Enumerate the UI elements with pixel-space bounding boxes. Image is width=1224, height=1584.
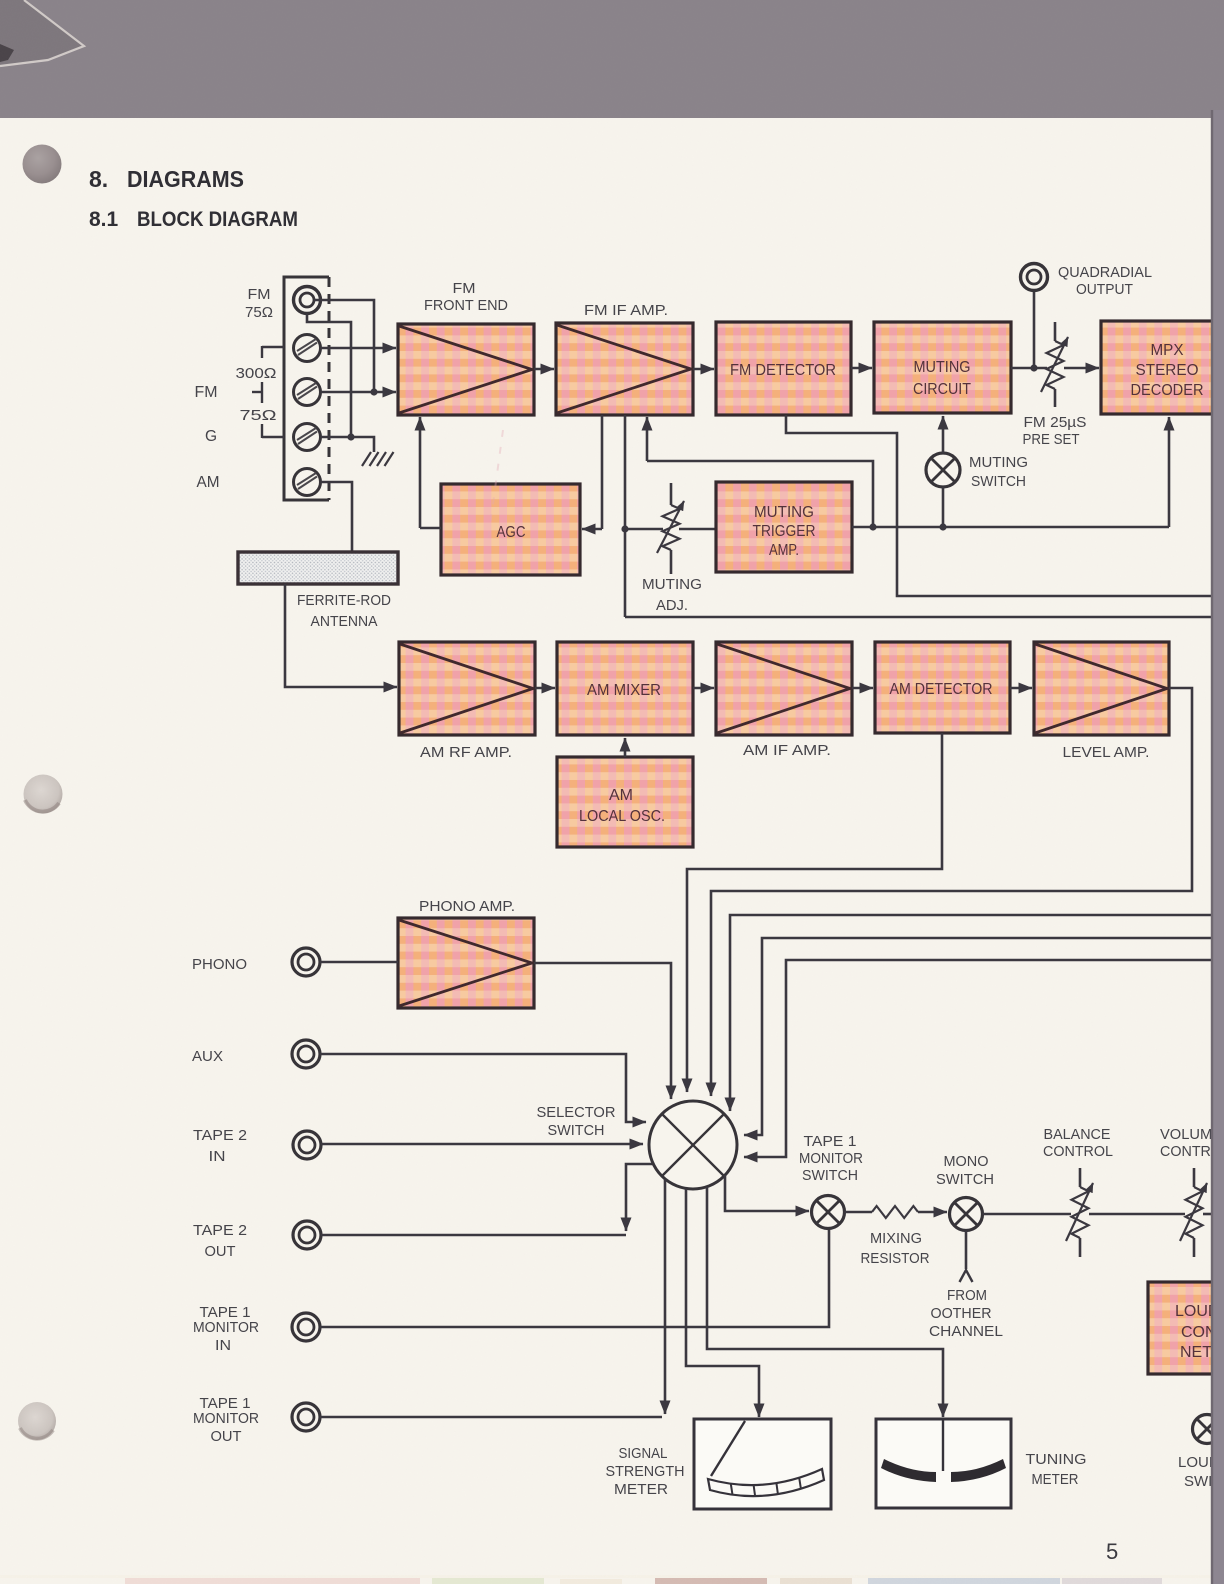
block FM DETECTOR [716,322,851,415]
label FERRITE-ROD ANTENNA [297,592,391,630]
terminal FM 75ohm coax [294,287,321,314]
faint pencil scratch [487,430,503,548]
jack TAPE 1 MONITOR IN [292,1313,320,1341]
jack AUX [292,1040,320,1068]
block LOUDNESS CONTROL NETWORK [1148,1282,1224,1374]
heading 8. DIAGRAMS [89,166,244,192]
svg-text:CONTROL: CONTROL [1043,1143,1113,1160]
block MUTING CIRCUIT [874,322,1011,413]
wire mono switch from other channel [965,1231,968,1270]
label MIXING RESISTOR [861,1230,930,1267]
node muting switch junction [939,523,946,530]
svg-text:MONO: MONO [944,1153,989,1170]
svg-text:CHANNEL: CHANNEL [929,1323,1003,1340]
terminal QUADRADIAL OUTPUT [1021,264,1048,291]
svg-text:METER: METER [1032,1471,1079,1488]
svg-text:G: G [205,428,217,445]
switch MONO [950,1198,983,1231]
label LEVEL AMP. [1063,744,1150,761]
svg-text:TUNING: TUNING [1026,1451,1087,1468]
wire muting switch down to bus [942,487,945,527]
svg-text:FM: FM [248,286,271,303]
svg-text:SELECTOR: SELECTOR [537,1104,616,1121]
svg-text:FM 25µS: FM 25µS [1024,414,1087,431]
svg-text:QUADRADIAL: QUADRADIAL [1058,264,1152,281]
svg-text:CIRCUIT: CIRCUIT [913,381,971,398]
wire AM IF amp to AM detector [852,687,873,690]
svg-text:AM RF AMP.: AM RF AMP. [420,744,512,761]
punch hole 2 [24,775,63,814]
wire bus line 938 from right into selector [744,938,1216,1135]
jack PHONO [292,948,320,976]
label MUTING ADJ. [642,576,702,614]
block LEVEL AMP [1034,642,1169,735]
svg-text:5: 5 [1106,1539,1118,1564]
scanner gray band top [0,0,1224,118]
potentiometer VOLUME CONTROL [1180,1168,1207,1257]
node feedback junction [869,523,876,530]
wire aux jack to selector [320,1054,646,1122]
svg-text:MUTING: MUTING [754,504,814,521]
label MUTING SWITCH [969,454,1028,490]
svg-text:BALANCE: BALANCE [1044,1126,1111,1143]
meter SIGNAL STRENGTH [694,1419,831,1509]
wire FM IF amp bottom into AGC [601,415,604,529]
svg-text:SWITCH: SWITCH [548,1122,605,1139]
wire FM IF amp muting takeoff down [624,415,627,617]
label 300ohm [236,365,277,382]
punch hole 1 [23,145,62,184]
wire AGC output up into FM front end [420,527,441,530]
block MPX STEREO DECODER [1101,321,1217,414]
ferrite-rod antenna [238,552,398,584]
node quadradial tap [1030,364,1037,371]
svg-text:ADJ.: ADJ. [656,597,688,614]
svg-text:AUX: AUX [192,1048,223,1065]
svg-text:PHONO AMP.: PHONO AMP. [419,898,515,915]
svg-text:PRE SET: PRE SET [1023,431,1080,448]
svg-text:OUT: OUT [211,1428,242,1445]
wire selector to tuning meter [707,1187,943,1417]
svg-text:75Ω: 75Ω [240,407,277,424]
svg-text:FERRITE-ROD: FERRITE-ROD [297,592,391,609]
label AM RF AMP. [420,744,512,761]
switch LOUDNESS [1193,1415,1222,1444]
svg-text:TAPE 2: TAPE 2 [193,1127,247,1144]
label PHONO AMP. [419,898,515,915]
wire AM mixer to AM IF amp [693,687,714,690]
svg-text:FRONT END: FRONT END [424,297,508,314]
wire tape 2 in to selector [321,1143,643,1146]
block AM LOCAL OSC [557,757,693,847]
svg-text:SWITCH: SWITCH [802,1167,858,1184]
svg-text:METER: METER [614,1481,668,1498]
wire selector to signal strength meter [686,1189,759,1417]
wire phono amp output to selector [534,963,671,1099]
block PHONO AMP [398,918,534,1008]
svg-text:AMP.: AMP. [769,542,799,559]
block FM FRONT END [398,324,534,415]
svg-text:MUTING: MUTING [914,359,971,376]
svg-text:LOCAL OSC.: LOCAL OSC. [579,808,665,825]
label SIGNAL STRENGTH METER [606,1445,685,1498]
wire AM terminal down to ferrite antenna [321,482,353,552]
svg-text:FM: FM [195,384,218,401]
label FM 25uS PRE SET [1023,414,1087,448]
label TAPE 1 MONITOR OUT [193,1395,259,1445]
jack TAPE 2 OUT [293,1221,321,1249]
svg-text:300Ω: 300Ω [236,365,277,382]
svg-text:SWITCH: SWITCH [936,1171,994,1188]
wire AM detector output down to selector [687,733,942,1092]
wire muting adj pot to muting trigger amp [679,528,716,531]
node FM front end input junction [370,388,377,395]
svg-text:AGC: AGC [497,524,526,541]
potentiometer BALANCE CONTROL [1066,1168,1093,1257]
jack TAPE 1 MONITOR OUT [292,1403,320,1431]
svg-text:FROM: FROM [947,1287,987,1304]
ground [362,452,394,466]
wire quadradial output [1033,291,1036,368]
svg-text:TAPE 1: TAPE 1 [804,1133,857,1150]
heading 8.1 BLOCK DIAGRAM [89,208,298,231]
label MONO SWITCH [936,1153,994,1188]
svg-text:MPX: MPX [1151,342,1184,359]
jack TAPE 2 IN [293,1131,321,1159]
resistor MIXING [845,1206,948,1218]
label FROM OOTHER CHANNEL [929,1287,1003,1340]
wire long muting line to right edge [625,616,1216,619]
wire FM front end to FM IF amp [534,368,554,371]
label QUADRADIAL OUTPUT [1058,264,1152,298]
wire 300ohm terminal to FM front end [321,347,397,350]
bottom page-edge colored strip [0,1575,1212,1584]
block FM IF AMP [556,323,693,415]
wire muting circuit output to MPX decoder [1011,367,1047,370]
svg-text:AM DETECTOR: AM DETECTOR [890,681,993,698]
node ground junction [347,433,354,440]
svg-text:75Ω: 75Ω [245,304,273,321]
svg-text:OUT: OUT [205,1243,236,1260]
terminal FM 75ohm screw [294,379,321,406]
svg-text:BLOCK DIAGRAM: BLOCK DIAGRAM [137,208,298,231]
wire tape 1 monitor out line [320,1416,662,1419]
svg-text:MUTING: MUTING [642,576,702,593]
wire bus line 915 from right [730,915,1216,1111]
terminal AM screw [294,469,321,496]
wire junction to muting adj pot [625,528,663,531]
svg-text:STRENGTH: STRENGTH [606,1463,685,1480]
switch SELECTOR (rotary) [649,1101,737,1189]
label LOUDNESS SWITCH [1178,1454,1224,1490]
svg-text:8.: 8. [89,166,108,192]
label G [205,428,217,445]
antenna terminal strip [284,277,329,500]
label TAPE 1 MONITOR IN [193,1304,259,1354]
svg-text:AM IF AMP.: AM IF AMP. [743,742,831,759]
svg-text:MONITOR: MONITOR [799,1150,863,1167]
wire tape 1 monitor in up to monitor switch [320,1229,829,1327]
paper texture noise [0,0,1,1]
punch hole 3 [18,1402,56,1440]
svg-text:MUTING: MUTING [969,454,1028,471]
wire phono jack to phono amp [320,961,398,964]
label PHONO [192,956,247,973]
svg-text:MONITOR: MONITOR [193,1410,259,1427]
svg-text:DIAGRAMS: DIAGRAMS [127,166,244,192]
svg-text:FM: FM [453,280,476,297]
svg-text:PHONO: PHONO [192,956,247,973]
potentiometer FM 25uS PRE SET [1041,322,1068,407]
block AM DETECTOR [875,642,1010,733]
wire selector to tape 1 monitor switch [725,1175,809,1211]
wire FM75 coax center to FM front end input [314,300,374,392]
potentiometer MUTING ADJ. [657,483,684,574]
torn corner wedge of band [0,0,84,66]
svg-text:SIGNAL: SIGNAL [619,1445,668,1462]
svg-text:OOTHER: OOTHER [931,1305,992,1322]
svg-text:TAPE 2: TAPE 2 [193,1222,247,1239]
scanner gray strip right edge [1212,110,1224,1584]
switch MUTING SWITCH [926,453,960,487]
label AM IF AMP. [743,742,831,759]
node muting junction [621,525,628,532]
label FM [195,384,218,401]
wire selector to tape 2 out [626,1164,653,1231]
svg-text:IN: IN [215,1337,231,1354]
wire FM detector to muting circuit [851,367,872,370]
wire volume control to edge [1203,1213,1216,1216]
block MUTING TRIGGER AMP [716,482,852,572]
dark tear notch top-left [0,44,14,62]
wire ferrite antenna to AM RF amp [285,584,397,687]
label TUNING METER [1026,1451,1087,1488]
label BALANCE CONTROL [1043,1126,1113,1160]
label FM 75ohm [245,286,273,321]
meter TUNING [876,1419,1011,1508]
svg-text:TRIGGER: TRIGGER [753,523,816,540]
svg-text:LEVEL AMP.: LEVEL AMP. [1063,744,1150,761]
label VOLUME CONTROL [1160,1126,1224,1160]
wire AM local osc up into AM mixer [624,738,627,757]
bracket 300/75 ohm [252,346,284,438]
svg-text:IN: IN [209,1148,226,1165]
svg-text:AM MIXER: AM MIXER [587,682,661,699]
label FM FRONT END [424,280,508,314]
svg-text:MIXING: MIXING [870,1230,922,1247]
wire muting trigger amp output bus [852,526,1169,529]
svg-text:SWITCH: SWITCH [971,473,1026,490]
wire muting switch up into muting circuit [942,416,945,453]
terminal G ground screw [294,424,321,451]
wire bus line 960 from right into selector [744,960,1216,1157]
wire bus up into MPX decoder bottom [1168,417,1171,527]
svg-text:8.1: 8.1 [89,208,119,231]
svg-text:FM DETECTOR: FM DETECTOR [730,362,836,379]
svg-text:STEREO: STEREO [1136,362,1199,379]
wire FM IF amp to FM detector [693,368,714,371]
label TAPE 1 MONITOR SWITCH [799,1133,863,1184]
label AM [197,474,220,491]
label AUX [192,1048,223,1065]
terminal FM 300ohm screw [294,335,321,362]
block AGC [441,484,580,575]
svg-text:ANTENNA: ANTENNA [311,613,378,630]
wire level amp output loop to selector [711,688,1192,1096]
wire G terminal to ground [321,436,352,439]
wire 75ohm terminal into FM front end [321,391,375,394]
block AM MIXER [557,642,693,735]
wire feedback line into FM IF amp bottom [647,461,873,527]
svg-text:DECODER: DECODER [1131,382,1204,399]
switch TAPE 1 MONITOR [812,1196,845,1229]
block AM IF AMP [716,642,852,735]
svg-text:MONITOR: MONITOR [193,1319,259,1336]
chevron from other channel [960,1270,973,1282]
wire FM detector bottom to right edge [786,415,1216,596]
label TAPE 2 OUT [193,1222,247,1260]
label SELECTOR SWITCH [537,1104,616,1139]
block AM RF AMP [399,642,535,735]
wire mono switch to balance control [983,1213,1072,1216]
label FM IF AMP. [584,302,668,319]
label 75ohm [240,407,277,424]
svg-text:FM IF AMP.: FM IF AMP. [584,302,668,319]
wire AM RF amp to AM mixer [535,687,555,690]
svg-text:RESISTOR: RESISTOR [861,1250,930,1267]
wire selector to tape 1 monitor out [664,1179,667,1414]
label TAPE 2 IN [193,1127,247,1165]
svg-text:AM: AM [197,474,220,491]
wire FM75 coax shell to ground bus [307,314,351,438]
svg-text:AM: AM [609,787,633,804]
svg-text:OUTPUT: OUTPUT [1076,281,1133,298]
wire AM detector to level amp [1010,687,1032,690]
wire balance to volume control [1089,1213,1185,1216]
